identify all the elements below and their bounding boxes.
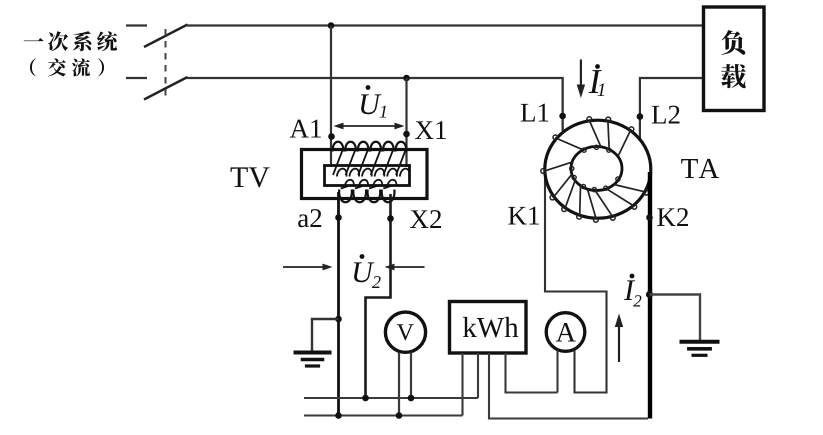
- arrow I1 current direction: [580, 60, 582, 86]
- label K1: [508, 207, 539, 225]
- wire kWh lead2 to bus A: [477, 353, 479, 398]
- ammeter A circle: [546, 313, 585, 352]
- wire TV secondary lead X2: [366, 194, 391, 398]
- wire to left ground: [312, 319, 339, 352]
- wire TV primary lead X1: [405, 78, 407, 167]
- label X1: [415, 121, 446, 139]
- wire kWh lead4 to ammeter: [506, 353, 558, 393]
- wire TV secondary lead a2: [337, 192, 340, 416]
- wire ammeter right lead to K1 loop: [545, 170, 607, 393]
- voltmeter V circle: [385, 312, 425, 352]
- wire second bus to L1 corner: [187, 78, 563, 131]
- wire voltage bus B: [304, 414, 463, 416]
- switch QS pole1 blade: [144, 25, 188, 48]
- wire to right ground: [650, 295, 701, 341]
- node A1 terminal dot: [328, 133, 335, 140]
- energy-meter kWh label: [463, 317, 518, 338]
- wire ammeter left lead: [556, 351, 558, 393]
- energy-meter kWh box: [450, 302, 527, 354]
- voltmeter V label: [397, 324, 414, 340]
- label a2: [298, 209, 321, 227]
- wire K2 thick secondary return: [648, 172, 652, 419]
- transformer TV outer core rect: [302, 150, 428, 199]
- label primary-system text 一次系统: [24, 38, 44, 41]
- node junction a2/bus B: [335, 412, 342, 419]
- load label 载: [721, 64, 746, 88]
- switch QS pole2 blade: [144, 77, 188, 100]
- arrow U2 right pointer: [391, 266, 425, 268]
- label U1 phasor: [366, 85, 371, 90]
- ammeter A label: [556, 323, 576, 341]
- node junction X2/bus A: [362, 395, 369, 402]
- label I1 phasor: [595, 64, 600, 69]
- transformer TV primary winding: [333, 142, 344, 152]
- label U2 phasor: [360, 254, 365, 259]
- node L1 terminal dot: [559, 113, 566, 120]
- label L2: [652, 106, 680, 124]
- node L2 terminal dot: [637, 113, 644, 120]
- node junction Vright/bus A: [408, 395, 415, 402]
- load box outline: [704, 7, 765, 111]
- node junction I2 on K2 wire: [646, 291, 653, 298]
- node X1 terminal dot: [403, 131, 410, 138]
- current-transformer TA toroid with winding: [545, 120, 651, 218]
- ground symbol left: [294, 351, 332, 355]
- wire TV primary lead A1: [330, 26, 332, 168]
- ground symbol right: [680, 340, 720, 344]
- wire top bus to load: [187, 24, 704, 26]
- node K2 terminal dot: [646, 214, 653, 221]
- label TA: [681, 159, 719, 178]
- transformer TV secondary winding: [339, 190, 352, 203]
- node junction Vleft/bus B: [396, 412, 403, 419]
- label X2: [410, 210, 441, 228]
- wire kWh lead3 to K2 return: [489, 353, 648, 419]
- switch QS linkage dashed: [165, 29, 167, 96]
- wire kWh lead1 to bus B: [461, 353, 463, 416]
- label I2 phasor: [630, 274, 635, 279]
- arrow U1 double-headed: [336, 125, 402, 127]
- node junction second bus / TV X1: [403, 75, 410, 82]
- label A1: [290, 120, 321, 138]
- switch QS pole1 fixed stub: [126, 24, 147, 26]
- wire L2 to load: [640, 78, 704, 140]
- label TV: [231, 167, 270, 187]
- label primary-system text （交流）: [30, 58, 36, 76]
- arrow U2 left pointer: [283, 266, 330, 268]
- node junction top bus / TV A1: [328, 22, 335, 29]
- label L1: [521, 104, 549, 122]
- label K2: [657, 208, 688, 226]
- arrow I2 current direction: [618, 327, 620, 362]
- node ground tap on a2 wire: [335, 316, 342, 323]
- switch QS pole2 fixed stub: [126, 77, 147, 79]
- wire voltmeter right lead: [410, 353, 412, 399]
- node a2 terminal dot: [335, 214, 342, 221]
- load label 负: [721, 30, 745, 55]
- wire L1 drop: [561, 78, 563, 131]
- transformer TV inner core rect: [325, 166, 410, 186]
- wire voltmeter left lead: [398, 353, 400, 416]
- wire voltage bus A: [304, 397, 478, 399]
- node X2 terminal dot: [387, 215, 394, 222]
